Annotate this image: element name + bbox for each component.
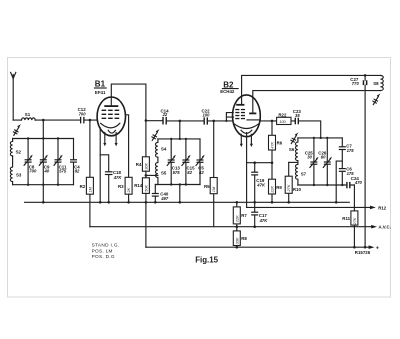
capacitor C22 bbox=[202, 108, 211, 124]
resistor R5 bbox=[204, 121, 217, 227]
svg-text:STAND I.G.: STAND I.G. bbox=[92, 243, 120, 248]
resistor R10 bbox=[285, 162, 301, 203]
tube B1 EF41 bbox=[97, 97, 125, 146]
resistor R7 bbox=[233, 201, 247, 228]
node R5 junction bbox=[212, 120, 215, 123]
tank1 top rail bbox=[13, 138, 74, 140]
wire B2 triode anode line bbox=[253, 91, 381, 113]
svg-text:22K: 22K bbox=[270, 185, 275, 193]
wire tank1 to bus bbox=[42, 185, 44, 203]
svg-text:30: 30 bbox=[307, 155, 312, 160]
svg-text:R8: R8 bbox=[241, 236, 247, 241]
capacitor C24 bbox=[346, 176, 362, 188]
wire B1 anode top cap bbox=[111, 84, 146, 157]
resistor R8 bbox=[233, 227, 247, 249]
wire cathode to R12 line bbox=[246, 163, 248, 208]
svg-text:35: 35 bbox=[295, 113, 300, 118]
svg-text:27K: 27K bbox=[286, 184, 291, 192]
resistor R3 bbox=[118, 177, 132, 203]
tank2 rail junction dots bbox=[170, 138, 172, 140]
wire AVC line bbox=[90, 225, 391, 230]
svg-text:R5: R5 bbox=[204, 184, 210, 189]
svg-text:47K: 47K bbox=[256, 182, 266, 187]
svg-text:R7: R7 bbox=[241, 213, 247, 218]
svg-text:S6: S6 bbox=[289, 147, 295, 152]
svg-text:22K: 22K bbox=[234, 215, 239, 223]
svg-text:82: 82 bbox=[75, 169, 80, 174]
svg-text:100: 100 bbox=[203, 112, 211, 117]
svg-text:47K: 47K bbox=[259, 218, 269, 223]
svg-text:60: 60 bbox=[321, 155, 326, 160]
svg-text:A.V.C.: A.V.C. bbox=[378, 225, 391, 230]
svg-text:1M: 1M bbox=[211, 186, 216, 192]
capacitor C17 bbox=[251, 202, 268, 228]
svg-text:R14: R14 bbox=[134, 183, 143, 188]
svg-text:175: 175 bbox=[347, 148, 355, 153]
svg-text:EF41: EF41 bbox=[95, 90, 106, 95]
tank1 rail junction dots bbox=[27, 137, 29, 139]
inductor S1 bbox=[22, 118, 36, 120]
wire B1 screen to R3 bbox=[125, 115, 128, 178]
svg-text:700: 700 bbox=[79, 111, 87, 116]
tank3 top rail bbox=[298, 137, 342, 139]
tank3 rail junction dots bbox=[313, 137, 315, 139]
capacitor C15 trimmer bbox=[182, 139, 195, 185]
label stand text bbox=[92, 243, 120, 260]
svg-text:50K: 50K bbox=[143, 184, 148, 191]
label B1 bbox=[95, 80, 107, 95]
wire grid line B1 bbox=[13, 119, 97, 121]
svg-text:S1: S1 bbox=[25, 112, 31, 117]
node C27 top junction bbox=[364, 74, 367, 77]
svg-text:700: 700 bbox=[29, 169, 37, 174]
svg-text:R6: R6 bbox=[277, 141, 283, 146]
svg-text:ECH42: ECH42 bbox=[220, 89, 235, 94]
node anode line junction bbox=[145, 119, 148, 122]
switch arrow tank2 bbox=[152, 129, 160, 140]
wire B2 grid stubs bbox=[226, 113, 233, 121]
svg-text:575: 575 bbox=[59, 169, 67, 174]
svg-text:S7: S7 bbox=[301, 171, 307, 176]
svg-text:575: 575 bbox=[173, 170, 181, 175]
wire tank2 to bus bbox=[179, 185, 181, 203]
node tank2 feed bbox=[179, 120, 182, 123]
svg-text:2K: 2K bbox=[126, 187, 131, 193]
tank1 bottom rail bbox=[13, 184, 74, 186]
capacitor C26 trimmer bbox=[318, 138, 332, 185]
svg-text:S5: S5 bbox=[161, 170, 167, 175]
capacitor C14 bbox=[161, 108, 170, 124]
wire C7/C6 junction to bus bbox=[336, 161, 342, 202]
resistor R9 bbox=[269, 163, 283, 204]
resistor R11 bbox=[342, 185, 358, 249]
svg-text:R9: R9 bbox=[276, 185, 282, 190]
svg-text:POS. D.G: POS. D.G bbox=[92, 254, 115, 259]
wire B2 cathode bbox=[247, 133, 272, 163]
resistor R6 bbox=[269, 121, 283, 163]
capacitor C12 bbox=[78, 107, 87, 123]
wire B1 cathode to bus bbox=[99, 128, 101, 203]
capacitor C19 bbox=[251, 163, 266, 204]
svg-text:POS. LM: POS. LM bbox=[92, 248, 113, 253]
capacitor C11 trimmer bbox=[54, 139, 67, 185]
svg-text:22: 22 bbox=[162, 112, 168, 117]
capacitor C27 bbox=[350, 75, 367, 248]
bus wire bbox=[25, 201, 350, 203]
svg-text:27K: 27K bbox=[352, 217, 357, 225]
svg-text:R12: R12 bbox=[378, 205, 387, 210]
inductor S4 bbox=[156, 139, 158, 157]
label B2 bbox=[220, 80, 238, 94]
svg-text:S4: S4 bbox=[161, 147, 167, 152]
switch arrow tank3 bbox=[291, 132, 299, 143]
svg-text:82: 82 bbox=[199, 170, 204, 175]
svg-text:47K: 47K bbox=[270, 141, 275, 148]
svg-text:+: + bbox=[376, 246, 379, 252]
svg-text:R4: R4 bbox=[136, 162, 142, 167]
capacitor C18 bbox=[100, 155, 122, 204]
svg-text:47K: 47K bbox=[113, 175, 123, 180]
page edge frame bbox=[8, 58, 391, 298]
capacitor C6 bbox=[339, 161, 354, 185]
svg-text:100: 100 bbox=[279, 119, 286, 124]
antenna bbox=[11, 72, 16, 120]
wire S6/S7 tap to R10 bbox=[289, 161, 298, 163]
svg-text:B1: B1 bbox=[95, 80, 106, 89]
tube B2 ECH42 bbox=[233, 95, 261, 147]
capacitor C25 trimmer bbox=[305, 138, 319, 185]
svg-text:33K: 33K bbox=[234, 237, 239, 244]
inductor S6 bbox=[296, 138, 298, 163]
wire plus supply line bbox=[146, 245, 379, 251]
node grid/R2 junction bbox=[89, 119, 92, 122]
tank2 top rail bbox=[158, 138, 200, 140]
tank3 bottom rail bbox=[298, 184, 355, 186]
svg-text:S3: S3 bbox=[16, 173, 22, 178]
capacitor C8 trimmer bbox=[24, 139, 37, 185]
capacitor C7 bbox=[339, 138, 354, 161]
resistor R2 bbox=[80, 120, 94, 227]
capacitor C5 trimmer bbox=[196, 139, 205, 185]
resistor R14 bbox=[134, 178, 149, 247]
svg-text:470: 470 bbox=[354, 180, 363, 185]
svg-text:R10: R10 bbox=[293, 187, 302, 192]
switch arrow S8 bbox=[373, 93, 381, 104]
svg-text:S2: S2 bbox=[16, 150, 22, 155]
svg-text:R3: R3 bbox=[118, 184, 124, 189]
wire tap to S4/S5 bbox=[146, 174, 158, 176]
svg-text:R22: R22 bbox=[278, 112, 287, 117]
inductor S8 bbox=[373, 75, 383, 90]
svg-text:770: 770 bbox=[352, 81, 360, 86]
svg-text:R11: R11 bbox=[342, 216, 350, 221]
wire drop to tank1 bbox=[42, 120, 44, 138]
resistor R4 bbox=[136, 157, 150, 172]
node R4/R14 tap bbox=[145, 171, 147, 178]
capacitor C4 bbox=[70, 139, 80, 185]
switch arrow tank1 bbox=[13, 124, 21, 135]
svg-text:1M: 1M bbox=[87, 186, 92, 192]
wire R12 line bbox=[247, 205, 387, 210]
svg-text:497: 497 bbox=[160, 196, 169, 201]
capacitor C13 trimmer bbox=[167, 139, 180, 185]
capacitor C40 bbox=[152, 185, 169, 204]
node antenna/tank1 junction bbox=[42, 119, 45, 122]
inductor S3 bbox=[10, 156, 12, 185]
inductor S5 bbox=[156, 157, 158, 184]
svg-text:82: 82 bbox=[187, 170, 192, 175]
svg-text:S8: S8 bbox=[373, 81, 379, 86]
wire drop to tank2 bbox=[179, 121, 181, 139]
node R6 junction bbox=[271, 120, 274, 123]
inductor S2 bbox=[10, 139, 12, 156]
tank2 bottom rail bbox=[155, 184, 200, 186]
wire B2 osc grid bbox=[260, 121, 320, 138]
svg-text:40: 40 bbox=[44, 169, 50, 174]
node C23 drop bbox=[320, 137, 322, 139]
svg-text:R15726: R15726 bbox=[355, 250, 371, 255]
svg-text:30K: 30K bbox=[143, 162, 148, 169]
wire anode coupling line bbox=[146, 120, 233, 122]
capacitor C23 bbox=[293, 109, 302, 124]
capacitor C9 trimmer bbox=[39, 139, 50, 185]
resistor R22 bbox=[277, 112, 291, 124]
inductor S7 bbox=[296, 162, 298, 185]
wire B2 hexode anode to top line bbox=[242, 75, 381, 104]
svg-text:R2: R2 bbox=[80, 184, 86, 189]
svg-text:Fig.15: Fig.15 bbox=[195, 255, 218, 264]
